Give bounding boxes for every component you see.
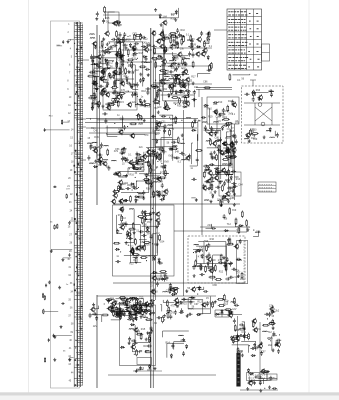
wire — [153, 46, 176, 54]
transistor Q28 — [160, 36, 165, 42]
transistor Q48 — [118, 198, 123, 204]
capacitor C80 — [172, 62, 177, 65]
resistor R207 — [218, 305, 225, 307]
svg-text:R16: R16 — [130, 174, 135, 177]
capacitor C126 — [150, 183, 153, 188]
ground — [174, 18, 177, 21]
resistor R148 — [159, 234, 161, 241]
transistor Q102 — [191, 286, 196, 292]
capacitor C162 — [213, 101, 218, 104]
resistor R50 — [163, 37, 170, 39]
wire — [163, 57, 189, 101]
junction — [213, 181, 214, 182]
wire — [94, 42, 108, 64]
ground — [136, 162, 139, 165]
capacitor C199 — [123, 125, 126, 130]
ground — [237, 274, 240, 277]
junction — [176, 11, 177, 12]
svg-text:C86: C86 — [212, 284, 217, 287]
junction — [254, 136, 255, 137]
svg-text:2k2: 2k2 — [172, 42, 177, 45]
wire — [54, 335, 72, 337]
wire — [133, 63, 139, 90]
capacitor C23 — [105, 48, 110, 51]
wire — [173, 52, 189, 56]
resistor R206 — [225, 309, 232, 311]
inductor L17 — [108, 102, 113, 105]
diode D60 — [269, 127, 271, 132]
svg-text:C75: C75 — [226, 198, 231, 201]
transistor Q27 — [175, 74, 180, 80]
wire — [103, 52, 122, 84]
transistor Q75 — [135, 245, 140, 251]
resistor R124 — [229, 157, 236, 159]
inductor L47 — [173, 118, 178, 121]
ground — [181, 134, 184, 137]
ground — [113, 81, 116, 84]
transistor Q73 — [185, 155, 190, 161]
junction — [96, 91, 97, 92]
resistor R72 — [209, 64, 211, 71]
wire — [116, 309, 151, 312]
wire — [233, 74, 250, 75]
diode D57 — [221, 126, 223, 131]
ground — [68, 221, 71, 224]
wire — [161, 274, 166, 279]
resistor R16 — [133, 34, 135, 41]
resistor R160 — [105, 299, 112, 301]
capacitor C203 — [196, 158, 199, 163]
transistor Q35 — [196, 36, 201, 42]
resistor R223 — [238, 227, 240, 234]
resistor R221 — [246, 219, 248, 226]
junction — [231, 262, 232, 263]
ground — [121, 63, 124, 66]
inductor L9 — [90, 57, 95, 60]
inductor L94 — [263, 330, 268, 333]
resistor R55 — [183, 96, 190, 98]
capacitor C160 — [211, 156, 216, 159]
transistor Q72 — [118, 129, 123, 135]
capacitor C52 — [112, 74, 115, 79]
resistor R119 — [227, 146, 229, 153]
junction — [225, 197, 226, 198]
inductor L98 — [248, 381, 253, 384]
ground — [92, 303, 95, 306]
ground — [115, 311, 118, 314]
junction — [120, 186, 121, 187]
wire — [207, 148, 219, 173]
diode D107 — [230, 176, 232, 181]
resistor R117 — [222, 118, 229, 120]
ground — [119, 200, 122, 203]
wire — [107, 126, 117, 137]
transistor Q30 — [159, 31, 164, 37]
wire — [159, 115, 173, 161]
wire — [213, 255, 223, 281]
ground — [172, 39, 175, 42]
resistor R179 — [145, 351, 152, 353]
transistor Q74 — [126, 231, 131, 237]
transistor Q80 — [129, 248, 134, 254]
junction — [161, 91, 162, 92]
resistor R122 — [222, 184, 224, 191]
inductor L45 — [144, 161, 149, 164]
capacitor C69 — [188, 45, 193, 48]
capacitor C246 — [122, 302, 127, 305]
capacitor C59 — [105, 103, 110, 106]
resistor R103 — [155, 122, 162, 124]
capacitor C251 — [147, 345, 152, 348]
capacitor C116 — [122, 147, 127, 150]
diode D68 — [152, 271, 157, 273]
transistor Q3 — [115, 94, 120, 100]
inductor L13 — [94, 75, 99, 78]
ground — [233, 192, 236, 195]
inductor L99 — [270, 321, 275, 324]
capacitor C2 — [44, 128, 46, 132]
capacitor C192 — [268, 90, 273, 93]
wire — [62, 121, 69, 123]
resistor R5 — [42, 293, 43, 298]
capacitor C117 — [155, 177, 160, 180]
capacitor C163 — [228, 163, 233, 166]
transistor Q103 — [227, 312, 232, 318]
wire — [91, 315, 102, 322]
resistor R87 — [132, 168, 139, 170]
junction — [177, 307, 178, 308]
resistor R195 — [215, 279, 222, 281]
capacitor C26 — [131, 92, 134, 97]
capacitor C230 — [127, 318, 132, 321]
ground — [152, 211, 155, 214]
capacitor C299 — [269, 376, 272, 381]
svg-text:C64: C64 — [238, 184, 243, 187]
transistor Q5 — [100, 69, 105, 75]
wire — [206, 117, 217, 133]
ground — [143, 99, 146, 102]
ground — [272, 326, 275, 329]
shield box audio — [237, 241, 248, 284]
svg-text:R19: R19 — [118, 214, 123, 217]
junction — [174, 70, 175, 71]
diode D97 — [228, 311, 233, 313]
svg-text:R15: R15 — [112, 92, 117, 95]
capacitor C13 — [117, 23, 122, 26]
transistor Q106 — [253, 327, 258, 333]
resistor R36 — [92, 101, 94, 108]
inductor L46 — [154, 181, 159, 184]
resistor R178 — [136, 349, 138, 356]
resistor R208 — [237, 347, 239, 354]
capacitor C95 — [191, 46, 194, 51]
ground — [161, 277, 164, 280]
junction — [143, 212, 144, 213]
resistor R10 — [118, 93, 125, 95]
resistor R153 — [120, 299, 127, 301]
wire — [270, 305, 273, 314]
junction — [114, 71, 115, 72]
capacitor C287 — [236, 334, 239, 339]
diode D58 — [222, 195, 227, 197]
svg-text:R10: R10 — [121, 217, 126, 220]
capacitor C25 — [111, 38, 116, 41]
inductor L95 — [267, 337, 272, 340]
capacitor C22 — [108, 46, 113, 49]
svg-text:T12: T12 — [227, 223, 232, 226]
junction — [147, 334, 148, 335]
transistor Q83 — [147, 302, 152, 308]
capacitor C289 — [243, 333, 246, 338]
diode D89 — [201, 254, 203, 259]
wire — [103, 14, 162, 16]
resistor R180 — [140, 333, 142, 340]
ground — [232, 143, 235, 146]
capacitor C227 — [156, 278, 161, 281]
resistor R73 — [210, 62, 212, 69]
transistor Q16 — [95, 100, 100, 106]
transistor Q14 — [106, 105, 111, 111]
svg-text:1N4: 1N4 — [240, 278, 245, 281]
resistor R201 — [172, 288, 179, 290]
transistor Q56 — [222, 141, 227, 147]
inductor L87 — [194, 243, 199, 246]
capacitor C16 — [88, 96, 93, 99]
module box video amp — [113, 205, 175, 276]
resistor R215 — [242, 336, 249, 338]
capacitor C279 — [181, 298, 186, 301]
diode D95 — [215, 313, 220, 315]
capacitor C168 — [217, 149, 222, 152]
diode D98 — [251, 355, 256, 357]
wire — [85, 122, 198, 124]
inductor L64 — [266, 129, 271, 132]
inductor L4 — [112, 97, 117, 100]
junction — [175, 104, 176, 105]
transistor Q104 — [201, 302, 206, 308]
wire — [191, 197, 195, 199]
diode D7 — [142, 56, 147, 58]
junction — [172, 49, 173, 50]
node nLt — [0, 0, 1, 1]
junction — [249, 345, 250, 346]
capacitor C161 — [204, 129, 209, 132]
wire — [145, 350, 149, 352]
wire — [139, 171, 161, 174]
transistor Q109 — [275, 342, 280, 348]
diode D31 — [160, 79, 162, 84]
node nB — [0, 0, 1, 1]
wire — [105, 59, 114, 61]
transistor Q60 — [219, 150, 224, 156]
capacitor C19 — [141, 36, 146, 39]
ground — [182, 338, 185, 341]
transistor Q26 — [168, 83, 173, 89]
capacitor C12 — [116, 21, 121, 24]
resistor R114 — [211, 176, 213, 183]
junction — [137, 192, 138, 193]
ground — [232, 189, 235, 192]
capacitor C229 — [134, 303, 139, 306]
ground — [145, 338, 148, 341]
capacitor C87 — [163, 72, 168, 75]
svg-text:22n: 22n — [225, 299, 230, 302]
junction — [222, 120, 223, 121]
wire — [140, 156, 154, 165]
inductor L71 — [163, 291, 168, 294]
resistor R123 — [210, 138, 212, 145]
resistor R181 — [149, 334, 151, 341]
ground — [276, 341, 279, 344]
resistor R185 — [167, 311, 169, 318]
inductor L27 — [178, 91, 183, 94]
inductor L54 — [222, 163, 227, 166]
svg-text:470: 470 — [231, 102, 236, 105]
ground — [95, 17, 98, 20]
resistor R71 — [203, 40, 205, 47]
diode D93 — [221, 309, 223, 314]
capacitor C202 — [188, 154, 191, 159]
diode D2 — [159, 14, 161, 19]
resistor R7 — [43, 309, 44, 314]
ground — [93, 96, 96, 99]
transistor Q101 — [172, 289, 177, 295]
junction — [218, 200, 219, 201]
resistor R203 — [223, 294, 225, 301]
capacitor C124 — [161, 183, 164, 188]
diode D21 — [175, 90, 177, 95]
node nAk — [0, 0, 1, 1]
wire — [138, 367, 144, 370]
svg-text:22n: 22n — [99, 50, 104, 53]
junction — [136, 181, 137, 182]
resistor R142 — [132, 247, 134, 254]
ground — [241, 354, 244, 357]
junction — [102, 54, 103, 55]
junction — [138, 299, 139, 300]
diode D81 — [115, 300, 117, 305]
node nS — [0, 0, 1, 1]
wire — [208, 131, 221, 180]
svg-text:100: 100 — [119, 67, 124, 70]
capacitor C136 — [146, 182, 151, 185]
transistor Q13 — [99, 76, 104, 82]
ground — [139, 300, 142, 303]
wire — [256, 92, 269, 96]
capacitor C28 — [92, 69, 95, 74]
transistor Q70 — [245, 132, 250, 138]
inductor L31 — [158, 38, 163, 41]
junction — [137, 304, 138, 305]
svg-text:R10: R10 — [251, 137, 256, 140]
capacitor C258 — [95, 316, 98, 321]
svg-text:R15: R15 — [119, 101, 124, 104]
svg-text:C42: C42 — [250, 130, 255, 133]
wire — [174, 342, 186, 350]
ground — [147, 73, 150, 76]
node nO — [0, 0, 1, 1]
ground — [268, 386, 271, 389]
capacitor C148 — [171, 141, 176, 144]
capacitor C280 — [187, 313, 192, 316]
diode D87 — [170, 354, 172, 359]
ground — [48, 281, 51, 284]
transistor Q95 — [174, 301, 179, 307]
diode D11 — [129, 43, 131, 48]
svg-text:6V8: 6V8 — [232, 147, 237, 150]
transistor Q67 — [212, 140, 217, 146]
ground — [195, 250, 198, 253]
wire — [99, 61, 102, 63]
inductor L93 — [189, 296, 194, 299]
svg-text:548: 548 — [175, 150, 180, 153]
capacitor C1 — [62, 40, 64, 44]
capacitor C256 — [179, 311, 184, 314]
capacitor C225 — [163, 276, 166, 281]
resistor R158 — [120, 313, 122, 320]
capacitor C174 — [231, 141, 234, 146]
capacitor C270 — [225, 278, 230, 281]
resistor R147 — [143, 242, 150, 244]
capacitor C107 — [107, 166, 110, 171]
capacitor C5 — [45, 284, 47, 288]
resistor R120 — [216, 168, 218, 175]
wire — [86, 118, 198, 120]
node nI1 — [0, 0, 1, 1]
capacitor C247 — [128, 337, 131, 342]
transistor Q44 — [156, 176, 161, 182]
diode D88 — [197, 250, 202, 252]
transistor Q53 — [225, 191, 230, 197]
capacitor C50 — [136, 82, 139, 87]
resistor R161 — [136, 299, 138, 306]
diode D49 — [163, 195, 165, 200]
ground — [53, 358, 56, 361]
resistor R194 — [195, 260, 197, 267]
ground — [136, 301, 139, 304]
ground — [60, 325, 63, 328]
diode D6 — [93, 56, 98, 58]
capacitor C232 — [110, 306, 115, 309]
wire — [235, 222, 239, 227]
resistor R56 — [175, 78, 177, 85]
svg-text:2k2: 2k2 — [125, 76, 130, 79]
inductor L25 — [171, 75, 176, 78]
resistor R105 — [203, 171, 205, 178]
transistor Q100 — [234, 243, 239, 249]
resistor R210 — [232, 340, 239, 342]
junction — [149, 314, 150, 315]
wire — [190, 134, 198, 166]
wire — [0, 392, 339, 395]
transistor Q45 — [111, 198, 116, 204]
inductor L18 — [136, 103, 141, 106]
inductor L50 — [168, 124, 173, 127]
capacitor C196 — [276, 133, 279, 138]
capacitor C158 — [223, 171, 228, 174]
wire — [86, 127, 197, 129]
node nBr — [0, 0, 1, 1]
resistor R157 — [129, 297, 136, 299]
wire — [97, 119, 143, 121]
wire — [117, 152, 144, 172]
wire — [225, 151, 234, 156]
wire — [130, 230, 141, 263]
svg-text:C20: C20 — [113, 300, 118, 303]
inductor L15 — [145, 61, 150, 64]
svg-text:12V: 12V — [93, 325, 98, 328]
svg-text:C97: C97 — [98, 164, 103, 167]
